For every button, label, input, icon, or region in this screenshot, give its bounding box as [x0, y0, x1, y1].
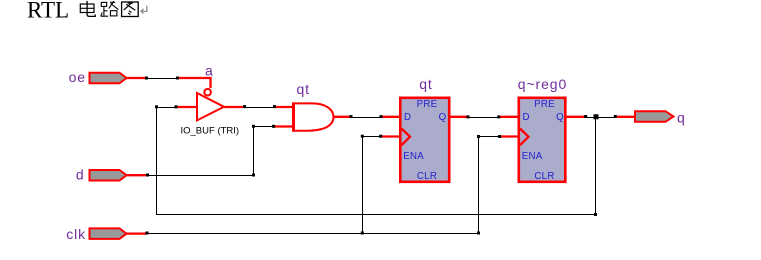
- wire segment clk to FF qt clock: [363, 137, 381, 234]
- svg-text:q: q: [677, 110, 686, 126]
- svg-text:clk: clk: [66, 226, 86, 242]
- tri-state enable bubble: [204, 89, 211, 96]
- junction: [273, 105, 276, 108]
- junction q net tap: [594, 114, 599, 119]
- junction: [146, 174, 149, 177]
- svg-text:PRE: PRE: [534, 99, 555, 110]
- wire FF q~reg0 clock stub (red): [500, 135, 519, 137]
- wire buffer input stub (red): [176, 106, 197, 108]
- wire buffer input from feedback node: [155, 105, 197, 108]
- junction: [594, 213, 597, 216]
- wire oe pin stub (red): [126, 77, 147, 79]
- junction: [252, 125, 255, 128]
- svg-text:d: d: [76, 167, 85, 183]
- wire segment q feedback to buffer input: [157, 107, 596, 215]
- junction: [477, 135, 480, 138]
- buffer triangle: [197, 93, 224, 120]
- junction: [614, 115, 617, 118]
- wire FF q~reg0 D stub (red): [499, 116, 519, 118]
- title glyph 路: [101, 1, 119, 16]
- svg-text:D: D: [523, 112, 530, 123]
- svg-text:D: D: [404, 112, 411, 123]
- svg-text:CLR: CLR: [417, 171, 437, 182]
- flip-flop q~reg0 body: [519, 98, 566, 182]
- output pin q: [635, 111, 674, 122]
- wire segment clk net: [147, 233, 479, 235]
- svg-text:Q: Q: [556, 112, 564, 123]
- wire AND input 1 stub (red): [275, 106, 294, 108]
- flip-flop qt clock chevron: [402, 129, 411, 146]
- junction: [380, 115, 383, 118]
- wire FF qt Q stub (red): [449, 116, 468, 118]
- junction: [176, 77, 179, 80]
- svg-text:qt: qt: [297, 81, 310, 97]
- flip-flop qt body: [400, 98, 449, 182]
- svg-text:qt: qt: [419, 76, 432, 92]
- junction: [584, 115, 587, 118]
- wire clk branch to FF1 clock: [361, 135, 400, 235]
- wire clk branch to FF2 clock: [477, 135, 519, 235]
- wire segment AND output to FF qt D: [351, 117, 381, 119]
- junction: [361, 232, 364, 235]
- wire q pin stub (red): [615, 116, 635, 118]
- wire buffer output stub (red): [224, 106, 244, 108]
- junction: [252, 174, 255, 177]
- input pin clk: [90, 228, 127, 239]
- wire segment q net: [586, 117, 616, 119]
- svg-text:q~reg0: q~reg0: [518, 76, 567, 92]
- wire net d to AND gate input 2: [126, 125, 293, 177]
- flip-flop q~reg0 clock chevron: [520, 129, 529, 146]
- wire AND output to FF1 D: [333, 115, 401, 118]
- wire segment FF qt Q to FF q~reg0 D: [468, 117, 499, 119]
- junction: [155, 105, 158, 108]
- wire net clk: [126, 232, 479, 235]
- AND gate qt: [294, 102, 334, 131]
- svg-text:RTL: RTL: [27, 0, 69, 23]
- title glyph 图: [122, 2, 139, 17]
- wire buffer output to AND gate input 1: [224, 105, 294, 108]
- junction: [361, 135, 364, 138]
- junction: [379, 135, 382, 138]
- junction: [497, 115, 500, 118]
- input pin d: [90, 170, 127, 181]
- junction: [498, 135, 501, 138]
- wire FF2 Q to output pin q: [566, 115, 636, 118]
- svg-text:Q: Q: [439, 112, 447, 123]
- junction: [467, 115, 470, 118]
- wire clk pin stub (red): [126, 232, 147, 234]
- wire d pin stub (red): [126, 174, 148, 176]
- wire AND input 2 stub (red): [274, 125, 293, 127]
- wire segment buffer output to AND input 1: [244, 107, 274, 109]
- junction: [243, 105, 246, 108]
- wire feedback q to buffer input: [157, 107, 599, 216]
- wire FF qt D stub (red): [381, 116, 400, 118]
- svg-text:ENA: ENA: [403, 151, 424, 162]
- svg-text:PRE: PRE: [417, 99, 438, 110]
- wire FF1 Q to FF2 D: [449, 115, 519, 118]
- junction: [175, 105, 178, 108]
- svg-text:IO_BUF (TRI): IO_BUF (TRI): [181, 125, 240, 136]
- junction: [272, 125, 275, 128]
- wire FF q~reg0 Q stub (red): [566, 116, 586, 118]
- wire FF qt clock stub (red): [381, 135, 400, 137]
- junction: [350, 115, 353, 118]
- svg-text:ENA: ENA: [522, 151, 543, 162]
- paragraph return mark: [141, 6, 147, 14]
- wire segment d net to AND input 2: [148, 127, 274, 176]
- input pin oe: [90, 73, 127, 84]
- wire oe net segment: [147, 78, 178, 80]
- wire net oe to node a (red stubs + black middle): [126, 77, 211, 89]
- title glyph 电: [80, 1, 95, 17]
- wire node a stub down to enable bubble (red): [178, 78, 211, 88]
- flip-flop U2 qt: [400, 98, 449, 182]
- junction: [477, 232, 480, 235]
- junction: [145, 77, 148, 80]
- junction: [146, 232, 149, 235]
- svg-text:a: a: [205, 63, 214, 79]
- svg-text:oe: oe: [69, 69, 86, 85]
- flip-flop U3 q~reg0: [519, 98, 566, 182]
- tri-state buffer U1 IO_BUF (TRI): [197, 89, 224, 121]
- wire segment feedback to buffer input: [157, 107, 177, 109]
- wire segment clk to FF q~reg0 clock: [479, 137, 500, 234]
- wire AND output stub (red): [333, 116, 352, 118]
- svg-text:CLR: CLR: [534, 171, 554, 182]
